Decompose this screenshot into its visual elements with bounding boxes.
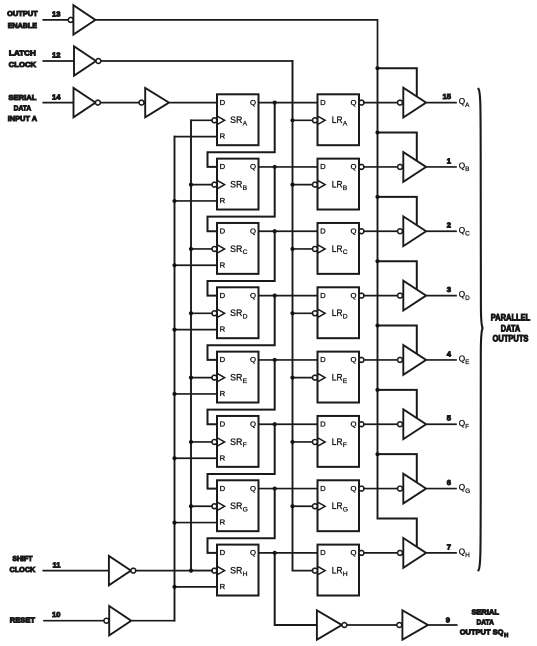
- svg-text:D: D: [220, 548, 226, 557]
- svg-text:1: 1: [447, 156, 452, 165]
- junction: latch clock bus at LRF: [290, 440, 294, 444]
- junction: OE bus at buffer UC: [375, 195, 379, 199]
- inverter U5 (shift clock): [109, 556, 131, 585]
- 3-state buffer UE input bubble: [398, 357, 403, 362]
- junction: node QDS: [273, 293, 277, 297]
- wire: latch clock bus to LRC clock: [293, 248, 313, 250]
- wire: LRC Q to output buffer: [364, 230, 398, 232]
- svg-text:SR: SR: [230, 180, 242, 191]
- LRC clock bubble: [312, 247, 317, 252]
- svg-text:QE: QE: [459, 355, 470, 367]
- svg-text:Q: Q: [250, 162, 256, 171]
- junction: OE bus at buffer UB: [375, 130, 379, 134]
- svg-text:R: R: [220, 325, 226, 334]
- junction: node QHS: [273, 551, 277, 555]
- svg-text:SERIAL: SERIAL: [471, 607, 499, 616]
- latch LRF: [318, 416, 360, 467]
- svg-text:6: 6: [447, 478, 451, 487]
- svg-text:LATCH: LATCH: [9, 48, 36, 57]
- junction: latch clock bus at LRC: [290, 247, 294, 251]
- svg-text:D: D: [320, 548, 326, 557]
- inverter U1 (output enable): [73, 5, 95, 34]
- svg-text:D: D: [320, 484, 326, 493]
- svg-text:DATA: DATA: [501, 324, 521, 334]
- svg-text:B: B: [343, 185, 348, 192]
- svg-text:D: D: [320, 227, 326, 236]
- wire: U6 output to reset bus (net RESET): [131, 620, 174, 622]
- junction: reset bus at SRC: [172, 263, 176, 267]
- SRG clock bubble: [212, 504, 217, 509]
- buffer U4 (serial data): [145, 88, 169, 117]
- flip-flop SRH: [217, 545, 259, 596]
- svg-text:14: 14: [52, 92, 61, 101]
- svg-text:Q: Q: [250, 227, 256, 236]
- junction: shift clock bus at SRC: [189, 247, 193, 251]
- svg-text:13: 13: [52, 10, 60, 19]
- flip-flop SRG: [217, 480, 259, 531]
- svg-text:Q: Q: [351, 98, 357, 107]
- wire: latch clock bus to LRD clock: [293, 312, 313, 314]
- latch LRH: [318, 545, 360, 596]
- svg-text:SHIFT: SHIFT: [12, 554, 32, 563]
- 3-state output buffer UD: [403, 281, 426, 311]
- latch LRE: [318, 352, 360, 403]
- wire: SRC Q to LRC D (node QCS): [259, 230, 318, 232]
- svg-text:R: R: [220, 196, 226, 205]
- wire: SRG Q feedback to SRH D: [208, 489, 275, 553]
- junction: latch clock bus at LRE: [290, 376, 294, 380]
- svg-text:QH: QH: [459, 548, 470, 560]
- LRD Q output bubble: [359, 293, 364, 298]
- wire: shift clock bus to SRH clock: [191, 570, 212, 572]
- svg-text:SERIAL: SERIAL: [8, 93, 36, 102]
- buffer U8 input bubble: [397, 623, 402, 628]
- SRF clock bubble: [212, 440, 217, 445]
- wire: shift clock bus to SRD clock: [191, 312, 212, 314]
- svg-text:D: D: [220, 420, 226, 429]
- junction: shift clock bus bottom: [189, 569, 193, 573]
- svg-text:E: E: [243, 378, 248, 385]
- LRG Q output bubble: [359, 486, 364, 491]
- wire: reset bus to SRB R input: [175, 200, 218, 202]
- svg-text:10: 10: [52, 610, 60, 619]
- svg-text:D: D: [220, 162, 226, 171]
- svg-text:SR: SR: [230, 437, 242, 448]
- flip-flop SRD: [217, 287, 259, 338]
- wire: shift clock bus to SRG clock: [191, 505, 212, 507]
- junction: shift clock bus at SRE: [189, 376, 193, 380]
- wire: reset bus to SRC R input: [175, 264, 218, 266]
- wire: SRB Q to LRB D (node QBS): [259, 166, 318, 168]
- LRF Q output bubble: [359, 422, 364, 427]
- inverter U7 (serial out): [317, 610, 342, 639]
- svg-text:D: D: [220, 484, 226, 493]
- wire: buffer UC to output QC: [426, 230, 456, 232]
- wire: buffer UB to output QB: [426, 166, 456, 168]
- wire: latch clock bus to LRF clock: [293, 441, 313, 443]
- 3-state output buffer UC: [403, 216, 426, 246]
- svg-text:QA: QA: [459, 97, 470, 109]
- svg-text:QG: QG: [459, 483, 470, 495]
- svg-text:G: G: [243, 506, 248, 513]
- svg-text:D: D: [243, 313, 248, 320]
- SRE clock bubble: [212, 375, 217, 380]
- wire: buffer UA to output QA: [426, 102, 456, 104]
- svg-text:12: 12: [52, 51, 60, 60]
- svg-text:R: R: [220, 582, 226, 591]
- flip-flop SRB: [217, 159, 259, 210]
- svg-text:Q: Q: [351, 227, 357, 236]
- wire: U7 output to buffer U8: [347, 624, 397, 626]
- wire: OE bus to buffer UC enable: [378, 197, 417, 230]
- svg-text:LR: LR: [332, 566, 343, 577]
- LRH Q output bubble: [359, 550, 364, 555]
- svg-text:QC: QC: [459, 226, 470, 238]
- junction: node QAS: [273, 101, 277, 105]
- svg-text:Q: Q: [250, 420, 256, 429]
- junction: reset bus at SRG: [172, 520, 176, 524]
- wire: RESET input to inverter U6: [44, 620, 104, 622]
- inverter U1 input bubble: [68, 17, 73, 22]
- svg-text:C: C: [243, 249, 248, 256]
- wire: reset bus to SRA R input: [175, 136, 218, 138]
- LRB clock bubble: [312, 182, 317, 187]
- svg-text:CLOCK: CLOCK: [9, 60, 37, 69]
- svg-text:OUTPUT SQ: OUTPUT SQ: [460, 627, 504, 636]
- LRB Q output bubble: [359, 164, 364, 169]
- SRD clock bubble: [212, 311, 217, 316]
- svg-text:SR: SR: [230, 308, 242, 319]
- wire: reset bus to SRH R input: [175, 586, 218, 588]
- junction: OE bus at buffer UG: [375, 452, 379, 456]
- wire: shift clock bus to SRE clock: [191, 377, 212, 379]
- wire: shift clock bus to SRA clock: [191, 119, 212, 121]
- LRG clock bubble: [312, 504, 317, 509]
- wire: SRA Q to LRA D (node QAS): [259, 102, 318, 104]
- wire: reset bus to SRE R input: [175, 393, 218, 395]
- shift clock bus (net SCLK): [190, 120, 192, 570]
- wire: latch clock bus to LRH clock: [293, 570, 313, 572]
- LRF clock bubble: [312, 440, 317, 445]
- junction: reset bus at SRF: [172, 456, 176, 460]
- wire: SRC Q feedback to SRD D: [208, 231, 275, 295]
- wire: SERIAL DATA input to inverter U3: [43, 102, 73, 104]
- latch LRB: [318, 159, 360, 210]
- svg-text:9: 9: [446, 615, 450, 624]
- 3-state buffer UH input bubble: [398, 550, 403, 555]
- latch LRG: [318, 480, 360, 531]
- wire: buffer UD to output QD: [426, 295, 456, 297]
- junction: reset bus at SRH: [172, 585, 176, 589]
- wire: OE bus to buffer UA enable: [378, 68, 417, 101]
- wire: U4 output to SR_A D input: [169, 102, 217, 104]
- junction: shift clock bus at SRG: [189, 504, 193, 508]
- inverter U6 (reset): [109, 606, 131, 635]
- wire: shift clock bus to SRF clock: [191, 441, 212, 443]
- wire: SRE Q to LRE D (node QES): [259, 359, 318, 361]
- svg-text:R: R: [220, 132, 226, 141]
- inverter U5 output bubble: [131, 568, 136, 573]
- svg-text:R: R: [220, 453, 226, 462]
- svg-text:LR: LR: [332, 437, 343, 448]
- LRE Q output bubble: [359, 357, 364, 362]
- svg-text:OUTPUT: OUTPUT: [7, 9, 38, 18]
- wire: SRD Q feedback to SRE D: [208, 296, 275, 360]
- wire: LRB Q to output buffer: [364, 166, 398, 168]
- output enable bus (net OE): [377, 68, 379, 518]
- svg-text:SR: SR: [230, 373, 242, 384]
- wire: LATCH CLOCK input to inverter U2: [43, 60, 74, 62]
- 3-state output buffer UB: [403, 152, 426, 182]
- svg-text:INPUT A: INPUT A: [8, 114, 38, 123]
- junction: shift clock bus at SRB: [189, 183, 193, 187]
- wire: SHIFT CLOCK input to inverter U5: [43, 570, 109, 572]
- LRE clock bubble: [312, 375, 317, 380]
- svg-text:G: G: [343, 506, 348, 513]
- LRC Q output bubble: [359, 229, 364, 234]
- svg-text:H: H: [243, 571, 248, 578]
- svg-text:DATA: DATA: [477, 618, 495, 627]
- junction: reset bus at SRB: [172, 199, 176, 203]
- buffer U4 input bubble: [139, 100, 144, 105]
- 3-state output buffer UG: [403, 474, 426, 504]
- wire: LRA Q to output buffer: [364, 102, 398, 104]
- 3-state output buffer UA: [403, 88, 426, 118]
- wire: LRD Q to output buffer: [364, 295, 398, 297]
- junction: OE bus at buffer UD: [375, 259, 379, 263]
- latch LRD: [318, 287, 360, 338]
- svg-text:D: D: [220, 227, 226, 236]
- inverter U2 (latch clock): [74, 46, 96, 75]
- flip-flop SRA: [217, 94, 259, 145]
- svg-text:D: D: [320, 162, 326, 171]
- wire: latch clock bus to LRA clock: [293, 119, 313, 121]
- SRA clock bubble: [212, 118, 217, 123]
- wire: node QHS to serial output inverter U7: [275, 553, 317, 625]
- junction: latch clock bus at LRD: [290, 311, 294, 315]
- svg-text:2: 2: [447, 221, 451, 230]
- wire: SRD Q to LRD D (node QDS): [259, 295, 318, 297]
- wire: buffer UE to output QE: [426, 359, 456, 361]
- wire: U5 output to SR_H clock (net SCLK): [136, 570, 212, 572]
- svg-text:E: E: [343, 378, 348, 385]
- svg-text:C: C: [343, 249, 348, 256]
- LRA clock bubble: [312, 118, 317, 123]
- svg-text:Q: Q: [250, 548, 256, 557]
- svg-text:Q: Q: [250, 484, 256, 493]
- 3-state output buffer UE: [403, 345, 426, 375]
- svg-text:SR: SR: [230, 566, 242, 577]
- junction: shift clock bus at SRF: [189, 440, 193, 444]
- inverter U6 input bubble: [104, 618, 109, 623]
- junction: reset bus at SRE: [172, 392, 176, 396]
- 3-state buffer UG input bubble: [398, 486, 403, 491]
- svg-text:D: D: [320, 355, 326, 364]
- wire: LRG Q to output buffer: [364, 488, 398, 490]
- SRH clock bubble: [212, 568, 217, 573]
- wire: OE bus to buffer UE enable: [378, 326, 417, 359]
- svg-text:4: 4: [447, 349, 452, 358]
- wire: U2 output to latch clock bus (net LCLK): [101, 61, 293, 120]
- svg-text:D: D: [320, 420, 326, 429]
- svg-text:H: H: [343, 571, 348, 578]
- wire: OE bus to buffer UD enable: [378, 261, 417, 294]
- wire: OE bus to buffer UG enable: [378, 454, 417, 487]
- wire: buffer UF to output QF: [426, 423, 456, 425]
- junction: node QES: [273, 358, 277, 362]
- inverter U3 output bubble: [95, 100, 100, 105]
- svg-text:5: 5: [447, 414, 452, 423]
- svg-text:R: R: [220, 260, 226, 269]
- svg-text:F: F: [343, 442, 347, 449]
- wire: SRG Q to LRG D (node QGS): [259, 488, 318, 490]
- wire: LRF Q to output buffer: [364, 423, 398, 425]
- svg-text:Q: Q: [351, 291, 357, 300]
- svg-text:D: D: [320, 291, 326, 300]
- svg-text:R: R: [220, 389, 226, 398]
- LRH clock bubble: [312, 568, 317, 573]
- junction: latch clock bus at LRG: [290, 504, 294, 508]
- junction: shift clock bus at SRD: [189, 311, 193, 315]
- latch LRA: [318, 94, 360, 145]
- svg-text:D: D: [220, 291, 226, 300]
- wire: shift clock bus to SRC clock: [191, 248, 212, 250]
- 3-state buffer UF input bubble: [398, 422, 403, 427]
- svg-text:7: 7: [447, 542, 451, 551]
- svg-text:Q: Q: [351, 484, 357, 493]
- wire: latch clock bus to LRB clock: [293, 184, 313, 186]
- wire: latch clock bus to LRG clock: [293, 505, 313, 507]
- svg-text:Q: Q: [351, 420, 357, 429]
- wire: reset bus to SRG R input: [175, 522, 218, 524]
- svg-text:Q: Q: [351, 548, 357, 557]
- wire: buffer U8 to serial output pin: [428, 624, 457, 626]
- 3-state output buffer UF: [403, 409, 426, 439]
- junction: node QCS: [273, 229, 277, 233]
- svg-text:Q: Q: [250, 98, 256, 107]
- 3-state buffer UD input bubble: [398, 293, 403, 298]
- 3-state output buffer UH: [403, 538, 426, 568]
- junction: latch clock bus at LRA: [290, 118, 294, 122]
- svg-text:D: D: [220, 355, 226, 364]
- latch LRC: [318, 223, 360, 274]
- svg-text:OUTPUTS: OUTPUTS: [493, 334, 529, 344]
- svg-text:D: D: [320, 98, 326, 107]
- wire: shift clock bus to SRB clock: [191, 184, 212, 186]
- wire: OE bus to buffer UB enable: [378, 133, 417, 166]
- wire: OUTPUT ENABLE input to inverter U1: [43, 19, 68, 21]
- svg-text:ENABLE: ENABLE: [8, 21, 37, 30]
- svg-text:QF: QF: [459, 419, 469, 431]
- wire: U1 output to OE bus (net OE): [95, 20, 377, 68]
- svg-text:SR: SR: [230, 115, 242, 126]
- svg-text:R: R: [220, 518, 226, 527]
- svg-text:LR: LR: [332, 180, 343, 191]
- svg-text:H: H: [504, 633, 508, 639]
- svg-text:QB: QB: [459, 162, 470, 174]
- wire: SRE Q feedback to SRF D: [208, 360, 275, 424]
- latch clock bus (net LCLK): [292, 61, 294, 571]
- wire: reset bus to SRF R input: [175, 457, 218, 459]
- wire: SRB Q feedback to SRC D: [208, 167, 275, 231]
- buffer U8 (serial out): [402, 610, 428, 639]
- brace: parallel data outputs group: [479, 89, 483, 570]
- LRD clock bubble: [312, 311, 317, 316]
- inverter U7 output bubble: [342, 623, 347, 628]
- wire: SRA Q feedback to SRB D: [208, 103, 275, 167]
- junction: OE bus at buffer UA: [375, 66, 379, 70]
- junction: latch clock bus at LRB: [290, 183, 294, 187]
- svg-text:SR: SR: [230, 501, 242, 512]
- svg-text:11: 11: [52, 560, 61, 569]
- svg-text:A: A: [243, 121, 248, 128]
- 3-state buffer UC input bubble: [398, 229, 403, 234]
- flip-flop SRC: [217, 223, 259, 274]
- junction: OE bus at buffer UE: [375, 323, 379, 327]
- junction: reset bus at SRD: [172, 327, 176, 331]
- wire: SRH Q to LRH D (node QHS): [259, 552, 318, 554]
- junction: node QGS: [273, 486, 277, 490]
- svg-text:15: 15: [443, 92, 452, 101]
- wire: U3 output to buffer U4: [100, 102, 139, 104]
- wire: SRF Q feedback to SRG D: [208, 424, 275, 488]
- svg-text:Q: Q: [250, 291, 256, 300]
- svg-text:B: B: [243, 185, 248, 192]
- svg-text:LR: LR: [332, 501, 343, 512]
- svg-text:LR: LR: [332, 244, 343, 255]
- wire: buffer UG to output QG: [426, 488, 456, 490]
- svg-text:Q: Q: [351, 355, 357, 364]
- flip-flop SRE: [217, 352, 259, 403]
- svg-text:CLOCK: CLOCK: [10, 565, 36, 574]
- svg-text:3: 3: [447, 285, 451, 294]
- junction: node QBS: [273, 165, 277, 169]
- wire: reset bus to SRD R input: [175, 329, 218, 331]
- reset bus (net RESET): [174, 137, 176, 621]
- svg-text:LR: LR: [332, 115, 343, 126]
- svg-text:Q: Q: [351, 162, 357, 171]
- junction: node QFS: [273, 422, 277, 426]
- flip-flop SRF: [217, 416, 259, 467]
- wire: latch clock bus to LRE clock: [293, 377, 313, 379]
- wire: LRH Q to output buffer: [364, 552, 398, 554]
- svg-text:LR: LR: [332, 373, 343, 384]
- svg-text:PARALLEL: PARALLEL: [491, 313, 531, 323]
- SRC clock bubble: [212, 247, 217, 252]
- wire: OE bus to buffer UH enable: [378, 519, 417, 552]
- wire: buffer UH to output QH: [426, 552, 456, 554]
- svg-text:SR: SR: [230, 244, 242, 255]
- wire: LRE Q to output buffer: [364, 359, 398, 361]
- svg-text:Q: Q: [250, 355, 256, 364]
- LRA Q output bubble: [359, 100, 364, 105]
- 3-state buffer UB input bubble: [398, 164, 403, 169]
- SRB clock bubble: [212, 182, 217, 187]
- inverter U3 (serial data): [74, 88, 96, 117]
- wire: OE bus to buffer UF enable: [378, 390, 417, 423]
- 3-state buffer UA input bubble: [398, 100, 403, 105]
- svg-text:DATA: DATA: [14, 104, 32, 113]
- inverter U2 output bubble: [96, 59, 101, 64]
- svg-text:D: D: [220, 98, 226, 107]
- svg-text:F: F: [243, 442, 247, 449]
- svg-text:LR: LR: [332, 308, 343, 319]
- wire: SRF Q to LRF D (node QFS): [259, 423, 318, 425]
- svg-text:D: D: [343, 313, 348, 320]
- svg-text:A: A: [343, 121, 348, 128]
- junction: OE bus at buffer UF: [375, 388, 379, 392]
- svg-text:RESET: RESET: [10, 615, 36, 624]
